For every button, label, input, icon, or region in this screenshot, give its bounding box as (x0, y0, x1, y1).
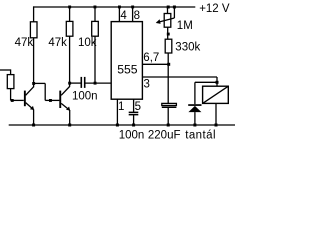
diode D1 triangle (188, 106, 201, 112)
node wiper feed at rail (173, 6, 176, 9)
wire Q2 emitter to ground (69, 110, 71, 125)
wire Q2 collector stub (69, 83, 71, 87)
wire input lead left edge (0, 69, 11, 71)
svg-text:100n: 100n (72, 91, 98, 103)
wiper arrow of P1 (157, 18, 175, 23)
wire trigger node to C1 (70, 82, 81, 84)
svg-text:1: 1 (118, 101, 124, 113)
diode D1 cathode bar (188, 104, 201, 106)
wire C2 to ground (133, 115, 135, 125)
capacitor C3 220uF tantal positive plate (162, 103, 177, 105)
node below pot (167, 33, 170, 36)
wire diode cathode lead (194, 82, 196, 104)
node trigger left junction (68, 82, 71, 85)
wire Q1 emitter to ground (33, 109, 35, 125)
node R3 bottom junction (94, 82, 97, 85)
wire pot bottom lead (167, 27, 169, 39)
wire R3 bottom lead (94, 36, 96, 83)
wire diode branch from relay node (195, 81, 217, 83)
wire diode anode to ground (194, 112, 196, 125)
wire pot top lead (167, 7, 169, 14)
node diode at rail (193, 124, 196, 127)
potentiometer P1 1M body (164, 14, 171, 28)
capacitor C1 100n (80, 77, 82, 88)
node Q2 base wire dot (49, 99, 52, 102)
wire R2 top lead (69, 7, 71, 21)
wire R2 bottom to trigger node (69, 36, 71, 83)
wire pin 5 lead (133, 99, 135, 112)
node R3 at top rail (94, 6, 97, 9)
svg-text:100n: 100n (119, 130, 145, 142)
svg-text:6,7: 6,7 (143, 52, 159, 64)
resistor R2 47k (66, 21, 73, 36)
resistor R3 10k (92, 21, 99, 36)
node Q1 collector junction (32, 82, 35, 85)
wire R4 top lead (10, 69, 12, 74)
wire wiper feed (173, 7, 175, 18)
wire pin 4 (118, 7, 120, 22)
svg-text:8: 8 (134, 10, 140, 22)
node R2 at top rail (68, 6, 71, 9)
svg-text:47k: 47k (15, 37, 34, 49)
svg-text:3: 3 (144, 78, 150, 90)
node pin4 at rail (118, 6, 121, 9)
resistor R4 (input series) (7, 75, 14, 89)
svg-text:220uF: 220uF (148, 130, 181, 142)
transistor Q2 (59, 91, 61, 108)
wire pin 3 output (142, 76, 217, 78)
node pot top at rail (167, 6, 170, 9)
wire +12V top rail (33, 6, 195, 8)
capacitor C3 negative plate (162, 107, 177, 109)
wire R1 bottom to Q1 collector (33, 38, 35, 87)
wire R3 top lead (94, 7, 96, 21)
relay K1 coil body (203, 86, 229, 103)
wire Q1 collector to Q2 base coupling (34, 82, 46, 84)
node pin1 at rail (116, 124, 119, 127)
svg-text:4: 4 (120, 10, 127, 22)
node C2 at rail (132, 124, 135, 127)
op-amp U1 555 timer body (111, 22, 142, 100)
wire 330k bottom to 220uF (167, 53, 169, 103)
svg-text:555: 555 (117, 63, 138, 77)
wire ground rail (9, 124, 235, 126)
svg-text:+12 V: +12 V (199, 3, 230, 15)
node pin8 at rail (131, 6, 134, 9)
node Q1 emitter at rail (32, 124, 35, 127)
wire C1 to IC pin2 (85, 82, 111, 84)
node Q2 emitter at rail (68, 124, 71, 127)
node relay at rail (215, 124, 218, 127)
wire pins 6,7 to timing node (142, 63, 169, 65)
wire pin 1 to ground (116, 99, 118, 125)
node C3 at rail (167, 124, 170, 127)
svg-text:5: 5 (135, 101, 141, 113)
resistor R5 330k (165, 39, 172, 53)
svg-text:10k: 10k (78, 37, 97, 49)
node Q1 base junction (11, 99, 14, 102)
wire relay bottom to ground (215, 103, 217, 125)
wire R4 bottom to Q1 base (10, 89, 12, 101)
svg-text:330k: 330k (175, 41, 200, 53)
transistor Q1 (24, 91, 26, 107)
wire R1 top lead from rail corner (33, 6, 35, 21)
resistor R1 47k (30, 22, 37, 38)
wire C3 to ground (167, 108, 169, 125)
relay K1 diagonal (203, 86, 229, 103)
capacitor C2 100n on pin5 (129, 111, 139, 113)
svg-text:1M: 1M (177, 20, 193, 32)
wire pin 8 (132, 7, 134, 22)
node relay top junction (216, 81, 219, 84)
wire pin 3 corner down (216, 77, 218, 86)
node timing junction 6,7 (167, 63, 170, 66)
svg-text:47k: 47k (48, 37, 67, 49)
svg-text:tantál: tantál (185, 130, 216, 142)
